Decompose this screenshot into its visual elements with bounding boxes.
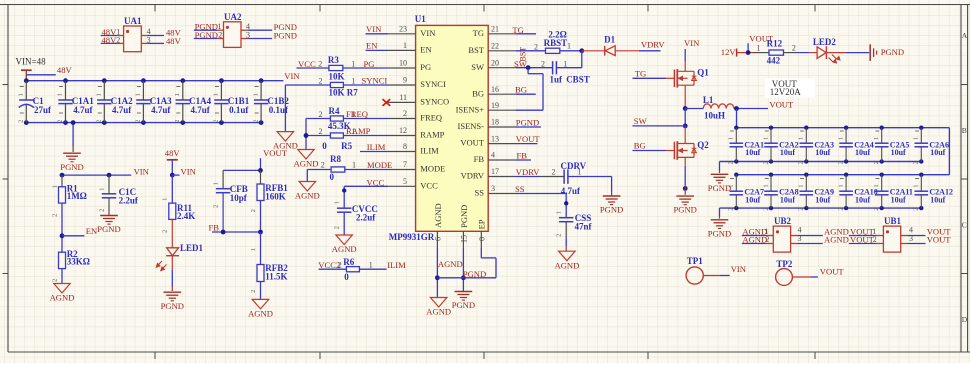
svg-text:UA2: UA2 (224, 12, 242, 22)
svg-text:AGND: AGND (824, 234, 849, 244)
svg-text:5: 5 (403, 177, 407, 186)
wire ILIM stub (pin 8) (360, 151, 388, 153)
svg-text:1: 1 (252, 93, 259, 96)
wire VIN stub at LED branch (170, 173, 175, 178)
svg-text:FREQ: FREQ (420, 113, 442, 123)
svg-text:VDRV: VDRV (461, 171, 485, 181)
resistor R6 0 (346, 267, 359, 272)
svg-text:160K: 160K (265, 191, 286, 201)
wire fb top (223, 169, 260, 171)
svg-text:10uf: 10uf (780, 148, 795, 157)
svg-text:2: 2 (174, 120, 181, 123)
svg-text:2.2uf: 2.2uf (119, 196, 139, 206)
U1 pin 0 EP (bottom) (480, 231, 482, 248)
svg-text:1: 1 (250, 248, 257, 251)
capacitor C2A6 10uf (919, 126, 923, 130)
capacitor C1B1 0.1uf (219, 78, 224, 83)
svg-text:AGND: AGND (295, 191, 320, 201)
svg-text:1: 1 (174, 93, 181, 96)
svg-text:22: 22 (491, 42, 499, 51)
wire PGND bottom rail (26, 122, 261, 124)
svg-text:AGND: AGND (426, 307, 451, 317)
ground AGND (CVCC) (336, 235, 353, 245)
svg-text:11.5K: 11.5K (265, 272, 287, 282)
wire TG to Q1 gate (633, 77, 667, 79)
svg-text:AGND: AGND (294, 159, 319, 169)
svg-text:2: 2 (552, 168, 556, 177)
svg-text:1: 1 (873, 137, 880, 140)
svg-text:1: 1 (563, 59, 567, 68)
wire FB row (260, 201, 262, 233)
svg-text:0: 0 (330, 172, 335, 182)
svg-text:2: 2 (792, 44, 796, 53)
U1 pin 11 SYNCO (388, 101, 416, 103)
ground AGND (R7) (277, 132, 294, 142)
component UB2 (773, 226, 790, 252)
U1 pin 13 VOUT (488, 143, 516, 145)
svg-text:2: 2 (318, 60, 322, 69)
svg-text:19: 19 (491, 101, 499, 110)
svg-text:12V20A: 12V20A (770, 87, 801, 97)
svg-text:10uf: 10uf (780, 196, 795, 205)
wire BG to Q2 gate (633, 150, 667, 152)
svg-text:VIN: VIN (420, 28, 435, 38)
UA1 pin 2 wire / net 48V (101, 42, 117, 44)
component UA2 (224, 22, 242, 48)
svg-text:FB: FB (209, 223, 220, 233)
U1 pin 6 AGND (bottom) (436, 231, 438, 248)
svg-text:4: 4 (491, 151, 495, 160)
ground PGND (LED1) (164, 291, 182, 293)
wire SW node down to Q2 (684, 109, 686, 126)
svg-text:10uf: 10uf (815, 148, 830, 157)
capacitor C1A3 4.7uf (141, 78, 146, 83)
svg-text:1: 1 (728, 137, 735, 140)
svg-text:PGND: PGND (459, 205, 469, 228)
capacitor C2A3 10uf (804, 126, 808, 130)
U1 pin 1 EN (388, 49, 416, 51)
svg-text:U1: U1 (415, 14, 426, 24)
U1 pin 18 ISENS- (488, 126, 516, 128)
wire PGND pin to ground tie (462, 248, 464, 290)
svg-text:2: 2 (534, 43, 538, 52)
svg-text:2: 2 (765, 235, 769, 244)
ground AGND (CSS) (559, 251, 576, 261)
wire R8 to MODE pin 7 (345, 169, 388, 171)
U1 pin 16 BG (488, 93, 516, 95)
svg-text:VOUT: VOUT (820, 267, 845, 277)
resistor R11 2.4K (171, 175, 173, 203)
svg-text:4.7uf: 4.7uf (112, 105, 132, 115)
svg-text:1: 1 (352, 77, 356, 86)
svg-text:10uf: 10uf (815, 196, 830, 205)
capacitor C1C 2.2uf (108, 175, 110, 194)
svg-text:1: 1 (57, 93, 64, 96)
svg-text:1: 1 (578, 168, 582, 177)
resistor R2 33K (59, 252, 66, 268)
capacitor CBST 1uf (552, 61, 554, 74)
wire EN stub (62, 235, 84, 237)
svg-text:0: 0 (322, 141, 327, 151)
svg-text:2: 2 (913, 207, 920, 210)
capacitor C2A1 10uf (734, 126, 738, 130)
svg-text:AGND: AGND (50, 293, 75, 303)
svg-text:2: 2 (162, 230, 169, 233)
svg-text:PGND: PGND (97, 224, 120, 234)
wire AGND to R8 (307, 169, 331, 171)
U1 pin 7 MODE (388, 169, 416, 171)
svg-text:3: 3 (798, 234, 802, 243)
svg-text:2: 2 (798, 207, 805, 210)
svg-text:2: 2 (319, 127, 323, 136)
svg-text:PGND: PGND (195, 30, 218, 40)
svg-text:48V: 48V (166, 36, 182, 46)
capacitor C2A7 10uf (734, 173, 738, 177)
svg-text:BG: BG (634, 141, 646, 151)
test point TP2 (776, 269, 793, 286)
wire row1 bottom rail (720, 161, 922, 163)
svg-text:ILIM: ILIM (387, 260, 406, 270)
svg-text:EN: EN (420, 45, 431, 55)
wire VIN to pin 23 (366, 33, 389, 35)
svg-text:2: 2 (762, 207, 769, 210)
capacitor C2A8 10uf (769, 173, 773, 177)
svg-text:EN: EN (86, 226, 98, 236)
svg-text:PG: PG (420, 62, 431, 72)
svg-text:PGND: PGND (673, 205, 696, 215)
svg-text:AGND: AGND (273, 141, 298, 151)
capacitor C2A5 10uf (880, 126, 884, 130)
ground PGND (Q2) (676, 195, 694, 197)
svg-text:C: C (962, 221, 967, 230)
svg-text:2: 2 (99, 209, 106, 212)
svg-text:10uf: 10uf (930, 148, 945, 157)
wire R7 to SYNCI pin 9 (343, 84, 388, 86)
svg-text:18: 18 (491, 118, 499, 127)
wire EP loop (480, 248, 482, 258)
svg-text:PGND: PGND (881, 47, 904, 57)
capacitor CDRV 4.7uf (563, 170, 565, 184)
resistor RBST 2.2ohm (546, 48, 560, 53)
wire R2 to AGND (61, 269, 63, 284)
UA1 pin 1 wire / net 48V (101, 35, 117, 37)
svg-text:Q1: Q1 (697, 68, 709, 78)
svg-text:EP: EP (477, 219, 487, 229)
svg-text:23: 23 (399, 25, 407, 34)
svg-text:FB: FB (474, 154, 485, 164)
svg-text:Q2: Q2 (697, 140, 709, 150)
svg-text:VDRV: VDRV (516, 167, 540, 177)
svg-text:2: 2 (52, 279, 59, 282)
svg-text:20: 20 (491, 58, 499, 67)
svg-text:UB2: UB2 (774, 216, 792, 226)
svg-text:RAMP: RAMP (420, 130, 444, 140)
wire VOUT rail row2 (736, 174, 949, 176)
resistor R7 10K (330, 82, 343, 87)
wire AGND pin to ground tie (436, 248, 438, 298)
wire R5 to RAMP pin 12 (343, 135, 388, 137)
svg-text:2.2uf: 2.2uf (356, 212, 376, 222)
wire row2 bottom rail (720, 207, 922, 209)
U1 pin 3 SS (488, 193, 516, 195)
svg-text:VIN: VIN (731, 264, 747, 274)
U1 pin 17 VDRV (488, 176, 516, 178)
svg-text:10uf: 10uf (855, 148, 870, 157)
svg-text:9: 9 (403, 76, 407, 85)
svg-text:R6: R6 (343, 257, 354, 267)
svg-text:R3: R3 (328, 55, 339, 65)
wire CDRV to PGND (568, 176, 612, 178)
U1 pin 22 BST (488, 50, 516, 52)
svg-text:3: 3 (246, 30, 250, 39)
LED LED2 (797, 52, 809, 54)
resistor R4 45.3K (330, 116, 343, 121)
svg-text:10K R7: 10K R7 (329, 88, 359, 98)
wire SW row + label (516, 67, 553, 69)
svg-text:10uf: 10uf (745, 148, 760, 157)
diode D1 (604, 46, 606, 56)
svg-text:2: 2 (728, 207, 735, 210)
resistor RFB1 160K (260, 170, 262, 184)
capacitor CVCC 2.2uf (343, 186, 345, 208)
svg-text:CBST: CBST (566, 74, 590, 84)
svg-text:PGND: PGND (60, 162, 83, 172)
ground AGND (R2) (54, 284, 70, 294)
U1 pin 9 SYNCI (388, 84, 416, 86)
svg-text:2: 2 (338, 260, 342, 269)
U1 pin 5 VCC (388, 185, 416, 187)
svg-text:442: 442 (767, 56, 781, 66)
svg-text:4.7uf: 4.7uf (151, 105, 171, 115)
UB1 pin 3 wire / net VOUT (901, 243, 908, 245)
svg-text:RAMP: RAMP (346, 126, 371, 136)
capacitor C2A11 10uf (880, 173, 884, 177)
svg-text:48V: 48V (57, 65, 73, 75)
net label PGND (pin 18) (516, 126, 541, 128)
svg-text:4.7uf: 4.7uf (73, 105, 93, 115)
U1 pin 19 ISENS+ (488, 109, 516, 111)
svg-text:PGND: PGND (274, 31, 297, 41)
svg-text:RBST: RBST (544, 38, 568, 48)
svg-text:2: 2 (52, 214, 59, 217)
wire VOUT loop right (948, 128, 950, 175)
svg-text:2: 2 (798, 161, 805, 164)
svg-text:PGND: PGND (600, 205, 623, 215)
U1 pin 8 ILIM (388, 151, 416, 153)
svg-text:2: 2 (556, 234, 563, 237)
svg-text:TG: TG (473, 28, 484, 38)
svg-text:R8: R8 (330, 154, 341, 164)
wire VIN to Q1 (684, 49, 686, 62)
wire row2 PGND drop (719, 208, 721, 216)
svg-text:PGND: PGND (516, 118, 539, 128)
svg-text:VDRV: VDRV (641, 39, 665, 49)
wire TP2 to VOUT (792, 276, 811, 278)
svg-text:VOUT: VOUT (850, 234, 875, 244)
svg-text:PGND: PGND (708, 228, 731, 238)
svg-text:48V: 48V (165, 148, 181, 158)
svg-text:3: 3 (147, 35, 151, 44)
svg-text:47nf: 47nf (575, 222, 593, 232)
ground AGND (R8) (299, 182, 316, 192)
svg-text:2: 2 (18, 120, 25, 123)
svg-text:1: 1 (567, 42, 571, 51)
svg-text:SYNCI: SYNCI (362, 76, 388, 86)
ground AGND (R4/R5) (298, 150, 314, 160)
wire R6 to ILIM (359, 268, 386, 270)
UB1 pin 4 wire / net VOUT (901, 235, 908, 237)
test point TP1 (686, 267, 703, 284)
svg-text:MP9931GR: MP9931GR (389, 232, 435, 242)
svg-text:2: 2 (873, 235, 877, 244)
svg-text:16: 16 (491, 85, 499, 94)
U1 pin 21 TG (488, 33, 516, 35)
wire BST-SW bootstrap riser (581, 51, 583, 68)
svg-text:R5: R5 (341, 141, 352, 151)
svg-text:1: 1 (838, 137, 845, 140)
svg-text:10uf: 10uf (745, 196, 760, 205)
svg-text:R4: R4 (329, 106, 340, 116)
svg-text:SYNCI: SYNCI (420, 79, 446, 89)
svg-text:2: 2 (218, 30, 222, 39)
U1 pin 4 FB (488, 159, 516, 161)
svg-text:3: 3 (909, 234, 913, 243)
svg-text:AGND: AGND (332, 244, 357, 254)
wire EN to pin 1 (366, 49, 389, 51)
svg-text:2: 2 (252, 120, 259, 123)
svg-text:ILIM: ILIM (420, 146, 439, 156)
svg-text:33KΩ: 33KΩ (67, 257, 90, 267)
svg-text:11: 11 (399, 93, 407, 102)
svg-text:D1: D1 (604, 35, 615, 45)
svg-text:SW: SW (471, 62, 484, 72)
svg-text:CDRV: CDRV (561, 161, 587, 171)
U1 pin 2 FREQ (388, 118, 416, 120)
svg-text:1MΩ: 1MΩ (67, 191, 87, 201)
svg-text:4.7uf: 4.7uf (561, 186, 581, 196)
svg-text:2: 2 (57, 120, 64, 123)
UB1 pin 2 wire / net VOUT (849, 243, 877, 245)
svg-text:1: 1 (162, 198, 169, 201)
svg-text:2.4K: 2.4K (177, 211, 195, 221)
wire VCC to R3 (297, 67, 329, 69)
svg-text:ISENS-: ISENS- (458, 121, 485, 131)
svg-text:12V: 12V (721, 47, 737, 57)
UA1 pin 3 wire / net 48V (141, 42, 148, 44)
svg-text:B: B (962, 126, 967, 135)
svg-text:1: 1 (762, 184, 769, 187)
ground PGND (U1) (462, 290, 464, 292)
svg-text:21: 21 (491, 25, 499, 34)
svg-text:1: 1 (351, 60, 355, 69)
svg-text:SS: SS (475, 188, 485, 198)
wire VCC2 to R6 (319, 268, 347, 270)
svg-text:AGND: AGND (742, 234, 767, 244)
resistor R8 0 (331, 167, 345, 172)
wire PGND drop (72, 123, 74, 147)
svg-text:UA1: UA1 (124, 16, 142, 26)
wire VIN top rail (26, 80, 283, 82)
svg-text:VCC: VCC (420, 180, 438, 190)
svg-text:1: 1 (18, 93, 25, 96)
svg-text:12: 12 (399, 126, 407, 135)
svg-text:SW: SW (514, 59, 528, 69)
svg-text:SS: SS (515, 184, 525, 194)
svg-text:2: 2 (728, 161, 735, 164)
svg-text:VOUT: VOUT (927, 234, 952, 244)
U1 pin 23 VIN (388, 33, 416, 35)
capacitor CFB 10pf (222, 170, 224, 188)
svg-text:2: 2 (250, 209, 257, 212)
svg-text:8: 8 (403, 142, 407, 151)
svg-text:2: 2 (334, 226, 341, 229)
svg-text:2: 2 (96, 120, 103, 123)
wire VOUT feed to cap bank (736, 109, 738, 128)
wire VCC to pin 5 (344, 185, 388, 187)
svg-text:VOUT: VOUT (460, 138, 484, 148)
svg-text:VIN=48: VIN=48 (16, 57, 47, 67)
svg-text:2: 2 (873, 207, 880, 210)
wire Q1 source to SW node (684, 85, 686, 108)
svg-text:BG: BG (515, 85, 527, 95)
svg-text:VOUT: VOUT (516, 134, 541, 144)
svg-text:2: 2 (762, 161, 769, 164)
svg-text:0: 0 (344, 272, 349, 282)
wire RBST to D1 (560, 50, 582, 52)
wire VIN node (R1 top) (62, 174, 131, 176)
svg-text:10uf: 10uf (855, 196, 870, 205)
svg-text:L1: L1 (703, 95, 714, 105)
svg-text:FB: FB (517, 151, 528, 161)
svg-text:1: 1 (873, 184, 880, 187)
svg-text:MODE: MODE (367, 160, 392, 170)
ground PGND (row2) (711, 219, 729, 221)
svg-text:0: 0 (478, 237, 487, 241)
capacitor C1 27uf (24, 78, 29, 83)
svg-text:1: 1 (838, 184, 845, 187)
capacitor C2A4 10uf (844, 126, 848, 130)
UB2 pin 1 wire / net AGND (742, 235, 767, 237)
svg-text:VIN: VIN (366, 24, 382, 34)
svg-text:2: 2 (213, 205, 220, 208)
svg-text:2: 2 (250, 290, 257, 293)
no-ERC marker pin 11 SYNCO (383, 99, 391, 106)
svg-text:1: 1 (728, 184, 735, 187)
svg-text:2: 2 (873, 161, 880, 164)
net label BG (pin 16) (516, 93, 536, 95)
svg-text:PGND: PGND (161, 301, 184, 311)
svg-text:AGND: AGND (554, 260, 579, 270)
svg-text:1: 1 (52, 185, 59, 188)
svg-text:MODE: MODE (420, 164, 445, 174)
capacitor C1B2 0.1uf (259, 78, 264, 83)
svg-text:BST: BST (468, 45, 484, 55)
svg-text:2: 2 (838, 161, 845, 164)
wire L1 to VOUT node (734, 108, 768, 110)
svg-text:3: 3 (491, 184, 495, 193)
capacitor C1A4 4.7uf (180, 78, 185, 83)
wire VOUT rail row1 (736, 127, 949, 129)
svg-text:1: 1 (798, 137, 805, 140)
wire SW stub (633, 125, 686, 127)
wire VOUT stub (fb) (260, 158, 262, 170)
svg-text:AGND: AGND (438, 259, 463, 269)
svg-text:TP1: TP1 (687, 256, 704, 266)
wire R1-R2 / EN tap (61, 203, 63, 252)
svg-text:10pf: 10pf (230, 193, 248, 203)
svg-text:VOUT: VOUT (769, 100, 794, 110)
capacitor C1A1 4.7uf (63, 78, 68, 83)
